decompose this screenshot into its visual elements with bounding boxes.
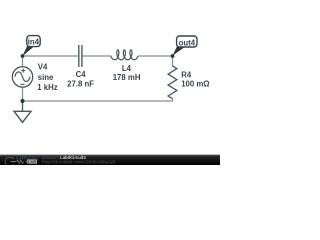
- svg-text:R4: R4: [181, 70, 192, 79]
- svg-text:C4: C4: [76, 70, 87, 79]
- junction dot ground: [20, 99, 24, 103]
- ground triangle: [14, 111, 31, 122]
- ground stub: [22, 101, 24, 111]
- V4 minus sign: [20, 83, 24, 85]
- out4 flag box: [177, 36, 197, 47]
- wire top rail left segment: [23, 55, 79, 57]
- svg-text:out4: out4: [179, 38, 196, 47]
- wire inductor to right node: [138, 55, 173, 57]
- in4 flag box: [27, 36, 40, 47]
- in4 flag pointer: [22, 46, 33, 57]
- voltage source V4 circle: [12, 67, 32, 87]
- wire left rail upper: [22, 56, 24, 67]
- capacitor C4 plates: [79, 45, 82, 67]
- resistor R4 zigzag: [168, 66, 177, 99]
- svg-text:27.8 nF: 27.8 nF: [67, 79, 94, 88]
- svg-text:178 mH: 178 mH: [113, 73, 141, 82]
- footer logo squiggle: [11, 161, 28, 163]
- wire bottom rail: [23, 100, 173, 102]
- wire right rail lower: [172, 99, 174, 101]
- wire right rail upper: [172, 56, 174, 66]
- footer logo LAB box: [27, 159, 37, 164]
- V4 sine symbol: [15, 72, 30, 82]
- footer bar: [0, 155, 220, 165]
- svg-text:http://circuitlab.com/c/29d2sb: http://circuitlab.com/c/29d2sb8by325: [42, 160, 116, 165]
- svg-text:100 mΩ: 100 mΩ: [181, 80, 209, 89]
- svg-text:in4: in4: [28, 38, 40, 47]
- V4 plus sign: [21, 69, 25, 73]
- svg-text:LAB: LAB: [28, 159, 37, 164]
- svg-text:V4: V4: [38, 63, 48, 72]
- wire cap to inductor: [82, 55, 111, 57]
- node dot in4: [21, 54, 25, 58]
- svg-text:L4: L4: [122, 64, 132, 73]
- wire left rail lower: [22, 87, 24, 101]
- svg-text:1 kHz: 1 kHz: [37, 83, 57, 92]
- inductor L4 coil: [111, 50, 138, 60]
- footer logo swoosh: [5, 157, 13, 166]
- svg-text:sine: sine: [38, 73, 54, 82]
- out4 flag pointer: [172, 46, 184, 56]
- node dot out4: [171, 54, 175, 58]
